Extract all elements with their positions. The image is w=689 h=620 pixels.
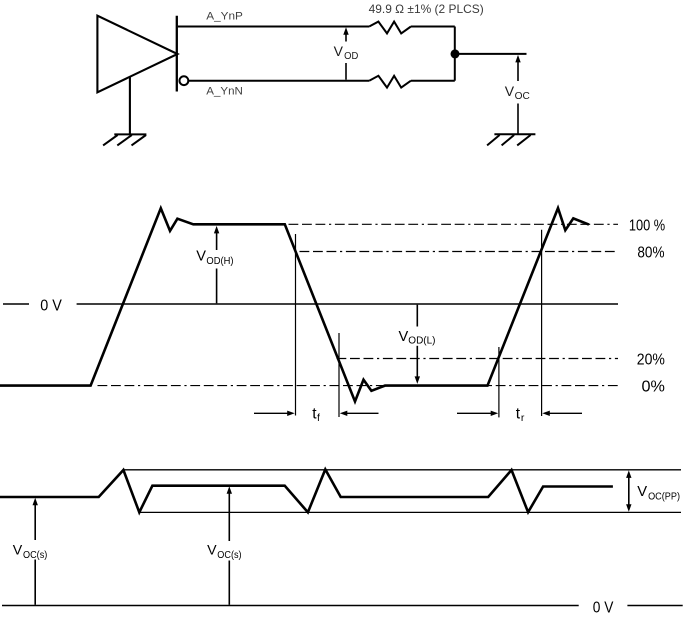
node junction dot (451, 49, 460, 58)
wire node vertical (454, 27, 456, 81)
svg-text:0 V: 0 V (593, 600, 614, 617)
svg-text:f: f (317, 412, 320, 424)
tr tick right (541, 230, 543, 416)
arrow Voc (515, 55, 520, 134)
0V axis bottom (2, 605, 683, 607)
label Vod(L) (399, 329, 436, 347)
label Voc(s) 2 (207, 543, 242, 562)
0V axis middle (3, 303, 618, 305)
dashed level 80% (300, 251, 619, 253)
svg-text:V: V (196, 248, 206, 264)
label Voc(s) 1 (13, 543, 48, 562)
svg-text:V: V (399, 329, 409, 345)
arrow Voc(s) 1 (33, 498, 38, 605)
svg-text:49.9 Ω ±1% (2 PLCS): 49.9 Ω ±1% (2 PLCS) (369, 3, 484, 16)
driver output bar (176, 16, 178, 92)
dashed level 20% (337, 358, 619, 360)
tf tick left (295, 234, 297, 416)
Voc envelope bottom line (139, 511, 681, 513)
svg-text:r: r (521, 412, 525, 424)
dashed level 100% (289, 223, 619, 225)
resistor R1 (369, 22, 411, 34)
Voc envelope top line (123, 469, 681, 471)
wire R2 to node (411, 80, 455, 82)
svg-text:100 %: 100 % (629, 217, 665, 234)
wire A_YnN (188, 80, 369, 82)
arrow Vod(H) (214, 226, 219, 303)
waveform Vod (0, 208, 589, 401)
svg-text:0%: 0% (642, 379, 665, 396)
svg-text:V: V (334, 43, 344, 59)
resistor R2 (369, 76, 411, 88)
arrow Voc(PP) (626, 470, 631, 511)
arrow Vod (343, 27, 348, 79)
waveform Voc (0, 469, 613, 512)
svg-text:OD(H): OD(H) (206, 256, 233, 267)
svg-text:OD: OD (344, 51, 358, 62)
tf arrow right (347, 412, 379, 414)
wire A_YnP (178, 26, 369, 28)
label tr (516, 405, 525, 424)
svg-text:V: V (207, 543, 217, 559)
svg-text:V: V (13, 543, 23, 559)
svg-text:OC(s): OC(s) (217, 550, 241, 561)
ground (103, 134, 146, 145)
label tf (312, 405, 320, 424)
svg-text:OC: OC (515, 91, 531, 102)
svg-text:OC(s): OC(s) (23, 550, 47, 561)
svg-text:A_YnN: A_YnN (206, 85, 243, 97)
arrow Vod(L) (415, 305, 420, 384)
label Voc(PP) (637, 484, 680, 503)
op-amp driver U1 (97, 16, 177, 93)
tr arrow left (457, 412, 491, 414)
svg-text:OC(PP): OC(PP) (648, 491, 680, 502)
svg-text:V: V (505, 83, 515, 99)
arrow Voc(s) 2 (227, 486, 232, 605)
svg-text:80%: 80% (637, 244, 664, 261)
tf arrow left (254, 412, 288, 414)
wire driver to ground (129, 77, 131, 135)
tr arrow right (550, 412, 583, 414)
svg-text:OD(L): OD(L) (408, 336, 435, 347)
wire node to Voc (455, 53, 527, 55)
inversion bubble (180, 76, 189, 85)
label Vod (334, 43, 359, 62)
dashed level 0% (98, 385, 619, 387)
svg-text:0 V: 0 V (40, 298, 62, 315)
ground 2 (487, 134, 535, 145)
svg-text:A_YnP: A_YnP (206, 11, 243, 23)
wire R1 to node (411, 26, 455, 28)
tr tick left (498, 347, 500, 417)
label Voc (505, 83, 531, 102)
svg-text:20%: 20% (637, 352, 665, 369)
svg-text:V: V (637, 484, 647, 500)
tf tick right (338, 333, 340, 417)
label Vod(H) (196, 248, 233, 267)
